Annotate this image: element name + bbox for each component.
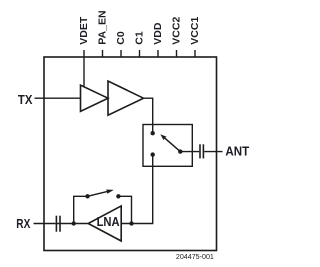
module outline box [44,57,217,251]
pin tick C1 [139,50,141,57]
bypass switch arm [88,192,108,197]
capacitor RX right plate [59,216,61,232]
bypass node left [85,194,89,198]
wire PA output to switch [144,98,153,133]
capacitor ANT left plate [199,144,201,158]
svg-text:ANT: ANT [225,145,249,159]
pin tick VDET [83,50,85,57]
pin tick PA_EN [102,50,104,57]
wire LNA output to capacitor [55,223,88,225]
antenna switch box [143,125,192,167]
pin tick VDD [157,50,159,57]
wire switch RX throw down to LNA input [121,156,153,224]
junction node LNA output [72,221,76,225]
wire switch common to capacitor [180,151,199,153]
capacitor ANT right plate [202,144,204,158]
switch node TX throw [151,131,155,135]
svg-text:C0: C0 [115,31,127,45]
pin tick VCC1 [194,50,196,57]
wire TX lead [35,97,81,99]
svg-text:LNA: LNA [97,215,120,229]
switch node common [178,149,182,153]
wire bypass left riser [74,196,88,223]
amplifier driver stage [81,85,109,111]
svg-text:VCC1: VCC1 [189,17,201,45]
antenna switch arrowhead [160,134,166,140]
pin tick VCC2 [176,50,178,57]
antenna switch arm [165,138,180,151]
wire capacitor to ANT [204,151,222,153]
wire VDET to PA [83,57,85,87]
amplifier PA stage [108,81,144,115]
switch node RX throw [151,152,155,156]
svg-text:VDET: VDET [78,16,90,45]
wire bypass right riser [118,196,131,223]
svg-text:VCC2: VCC2 [171,17,183,45]
capacitor RX left plate [55,216,57,232]
pin tick C0 [120,50,122,57]
svg-text:RX: RX [16,217,31,231]
bypass node right [116,194,120,198]
junction node LNA input [129,221,133,225]
LNA amplifier (points left) [88,206,121,241]
svg-text:TX: TX [18,93,33,107]
svg-text:PA_EN: PA_EN [97,10,109,44]
bypass arrowhead [106,190,114,194]
svg-text:204475-001: 204475-001 [176,254,214,261]
svg-text:C1: C1 [134,31,146,45]
wire RX lead [34,223,56,225]
svg-text:VDD: VDD [152,22,164,45]
